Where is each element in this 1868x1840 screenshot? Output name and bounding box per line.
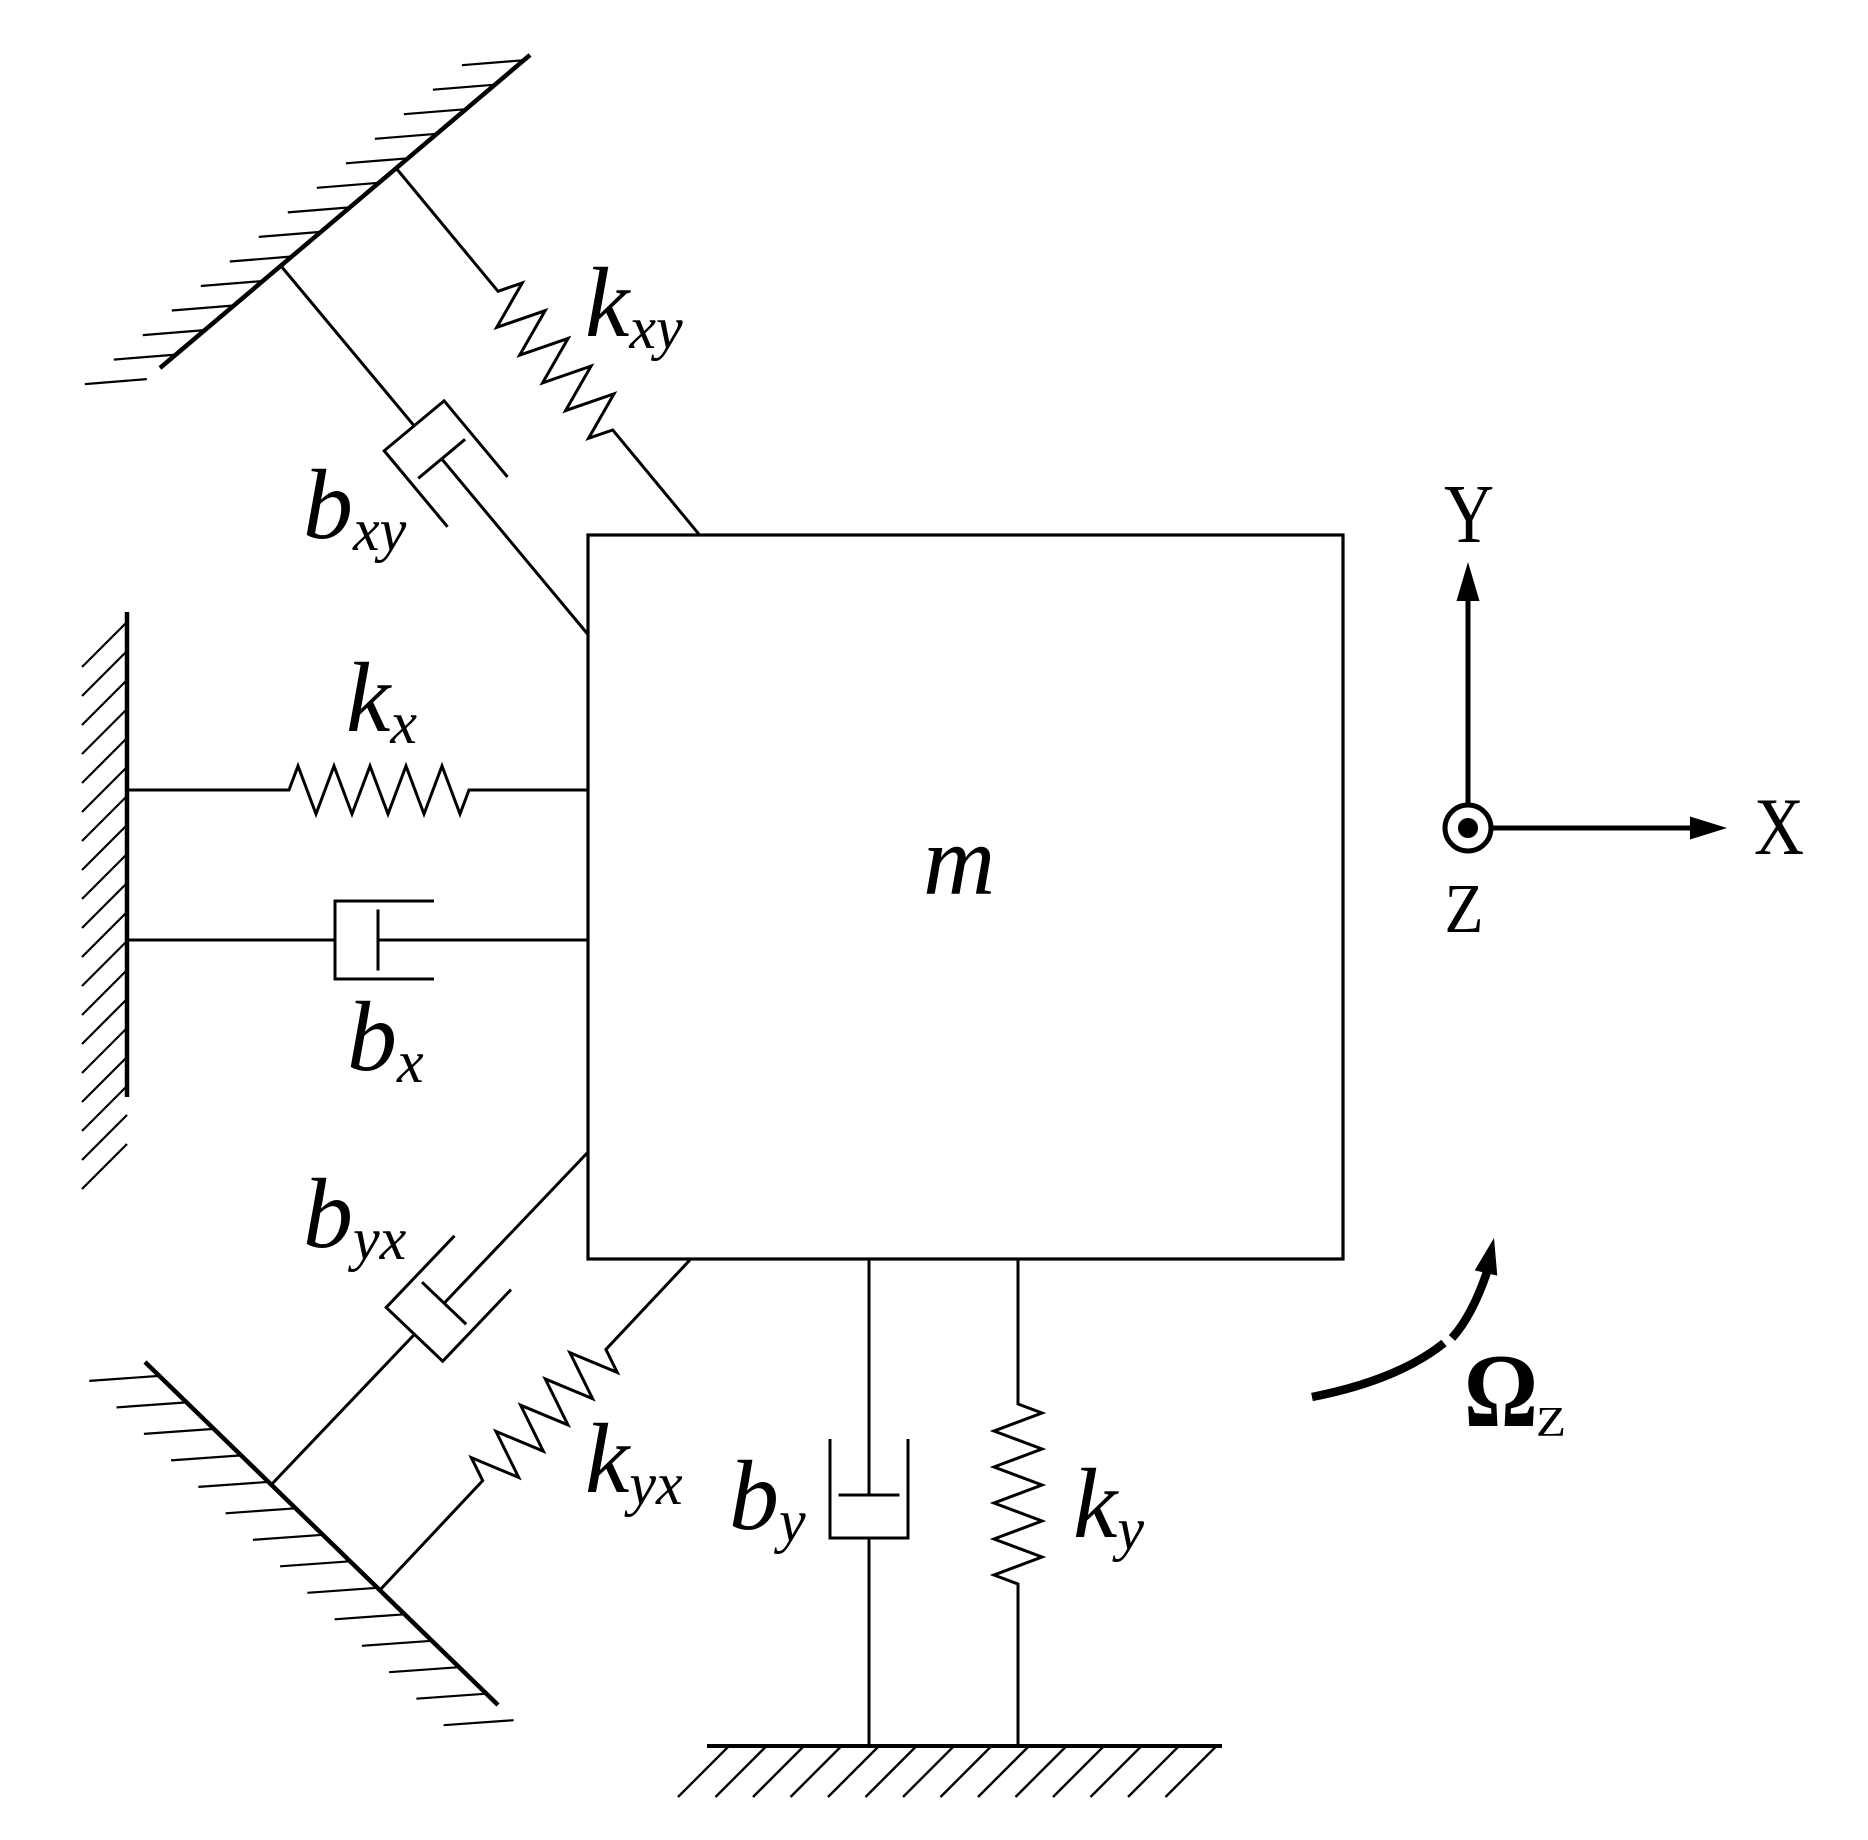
svg-text:m: m [923,805,995,916]
svg-text:Y: Y [1444,468,1494,561]
ground (hatched) [678,1746,1222,1797]
damper by (vertical) [830,1259,908,1746]
Y axis arrow [1457,562,1480,805]
spring kx (horizontal, wall to mass) [127,766,588,814]
svg-text:Ω: Ω [1464,1332,1538,1449]
wall (bottom-left anchor, hatched) [89,1362,513,1725]
wall (top-left anchor, hatched) [85,55,530,384]
spring kxy (diagonal) [378,153,719,551]
rotation arrow Omega_z [1312,1272,1487,1397]
svg-text:Z: Z [1536,1400,1566,1446]
spring kyx (diagonal) [363,1243,708,1606]
svg-text:Z: Z [1445,871,1484,948]
damper byx (diagonal) [243,1125,617,1512]
damper bxy (diagonal) [251,241,618,659]
wall (left anchor, hatched) [82,612,127,1189]
coordinate axes origin (Z out of page) [1445,805,1491,851]
damper bx (horizontal) [127,901,588,979]
X axis arrow [1493,817,1727,840]
spring ky (vertical) [994,1259,1042,1746]
svg-text:X: X [1754,781,1804,872]
mass block m [588,535,1343,1259]
